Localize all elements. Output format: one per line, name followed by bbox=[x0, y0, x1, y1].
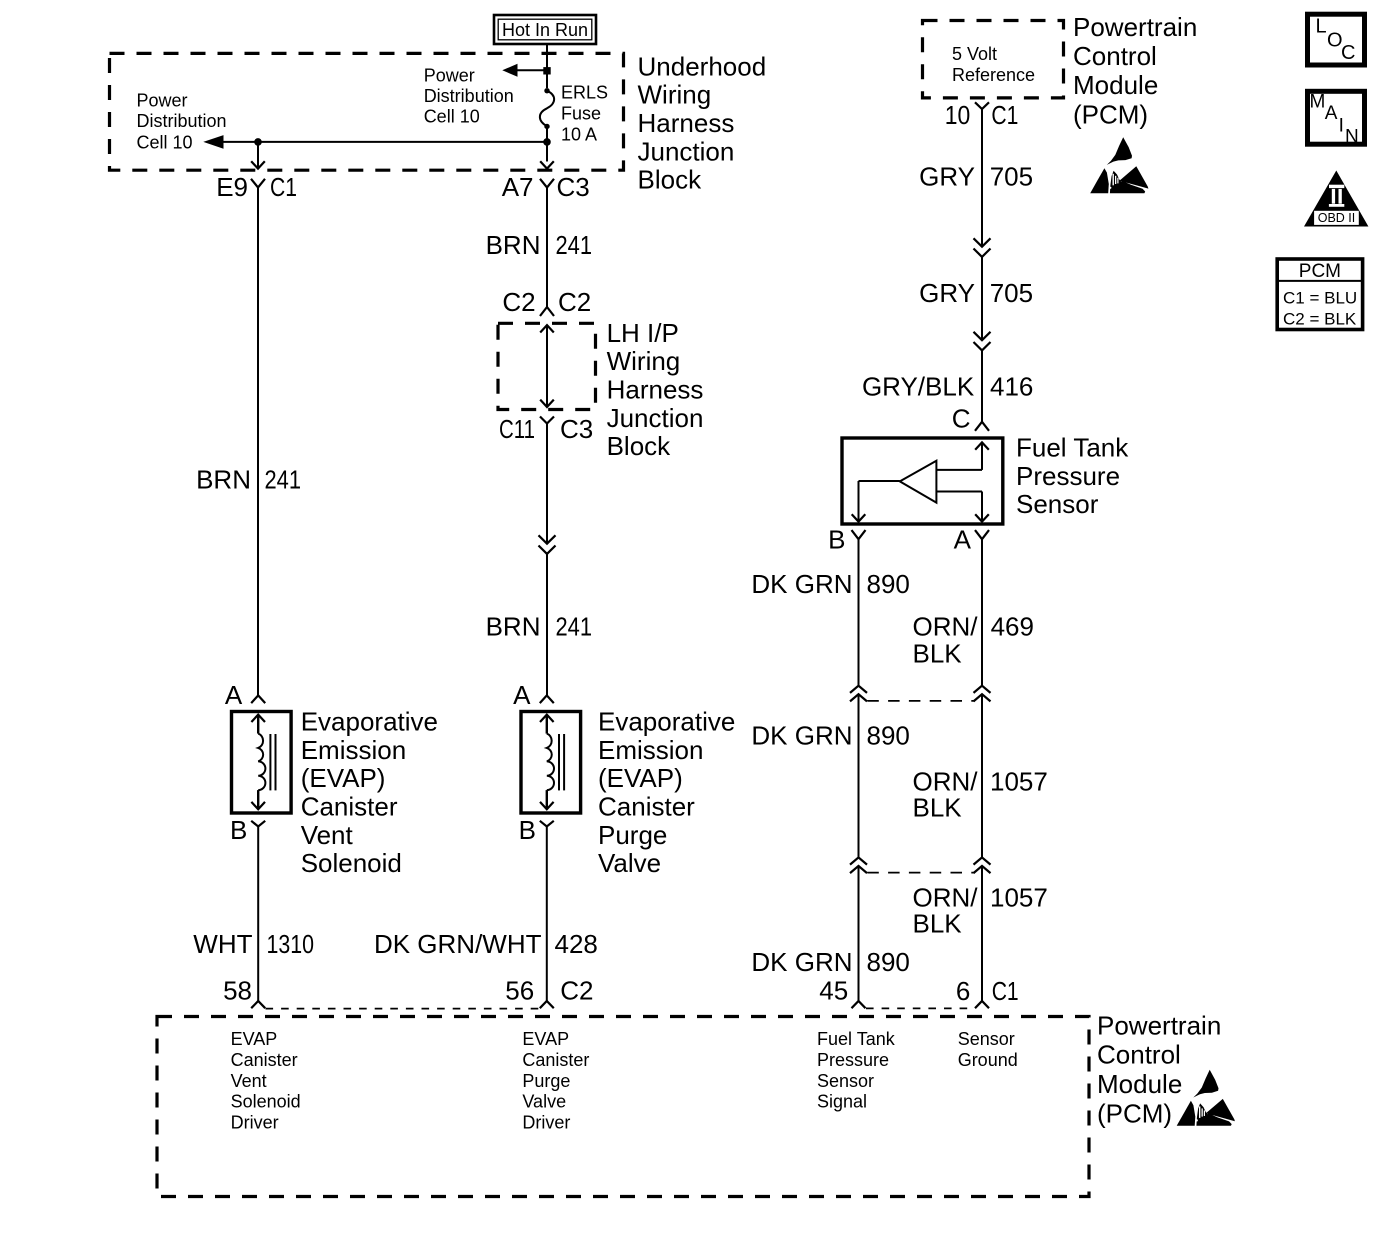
svg-text:Fuel Tank: Fuel Tank bbox=[1016, 433, 1129, 463]
svg-text:GRY: GRY bbox=[919, 162, 975, 192]
svg-text:Reference: Reference bbox=[952, 65, 1035, 85]
label: Power Distribution Cell 10 (upper) bbox=[424, 66, 514, 127]
label: Evaporative Emission (EVAP) Canister Vent Solenoid bbox=[301, 707, 438, 878]
svg-text:ORN/: ORN/ bbox=[913, 611, 979, 641]
label: LH I/P Wiring Harness Junction Block bbox=[607, 318, 704, 461]
svg-text:EVAP: EVAP bbox=[522, 1029, 569, 1049]
svg-text:C2: C2 bbox=[502, 287, 535, 317]
svg-text:5 Volt: 5 Volt bbox=[952, 44, 997, 64]
splice continuation chevrons (GRY 2) bbox=[974, 332, 991, 340]
label: Sensor Ground bbox=[958, 1029, 1018, 1070]
wire: WHT 1310 (vent solenoid B to PCM 58) bbox=[257, 827, 259, 1002]
svg-text:Vent: Vent bbox=[301, 820, 354, 850]
svg-text:Sensor: Sensor bbox=[1016, 489, 1099, 519]
svg-text:Hot In Run: Hot In Run bbox=[502, 20, 588, 40]
svg-text:(PCM): (PCM) bbox=[1097, 1098, 1172, 1128]
svg-text:B: B bbox=[519, 815, 536, 845]
connector C2 / C2 (chevron into LH I/P block) bbox=[540, 307, 554, 316]
label: Powertrain Control Module (PCM) top right bbox=[1073, 12, 1197, 129]
svg-text:Power: Power bbox=[137, 90, 188, 110]
svg-text:C3: C3 bbox=[560, 414, 593, 444]
wire: BRN 241 (C11/C3 down to EVAP purge valve) bbox=[546, 424, 548, 544]
svg-text:Powertrain: Powertrain bbox=[1097, 1010, 1221, 1040]
junction dot at fuse output / horizontal bus bbox=[543, 138, 551, 146]
svg-text:469: 469 bbox=[991, 611, 1034, 641]
junction dot E9 branch bbox=[254, 138, 262, 146]
wire: E9 branch down to block edge, exit arrow bbox=[257, 142, 259, 167]
svg-text:241: 241 bbox=[556, 230, 593, 260]
PCM connector color legend box bbox=[1277, 259, 1362, 330]
svg-text:Block: Block bbox=[607, 431, 672, 461]
svg-text:Canister: Canister bbox=[301, 792, 398, 822]
svg-text:A: A bbox=[225, 680, 243, 710]
svg-text:1310: 1310 bbox=[267, 929, 315, 959]
svg-text:B: B bbox=[828, 524, 845, 554]
label: GRY 705 (lower) bbox=[919, 278, 1033, 308]
svg-text:C2 = BLK: C2 = BLK bbox=[1283, 310, 1357, 329]
svg-text:Fuel Tank: Fuel Tank bbox=[817, 1029, 896, 1049]
svg-text:C: C bbox=[1341, 42, 1355, 64]
svg-text:Harness: Harness bbox=[638, 108, 735, 138]
svg-text:890: 890 bbox=[867, 947, 910, 977]
label: Evaporative Emission (EVAP) Canister Purge Valve bbox=[598, 707, 735, 878]
svg-text:Solenoid: Solenoid bbox=[301, 848, 402, 878]
svg-text:(EVAP): (EVAP) bbox=[598, 763, 683, 793]
svg-text:A: A bbox=[513, 680, 531, 710]
svg-text:Emission: Emission bbox=[301, 735, 406, 765]
svg-text:ERLS: ERLS bbox=[561, 83, 608, 103]
svg-text:C1: C1 bbox=[270, 172, 297, 202]
label: Fuel Tank Pressure Sensor Signal bbox=[817, 1029, 896, 1111]
svg-text:Pressure: Pressure bbox=[1016, 461, 1120, 491]
svg-text:Purge: Purge bbox=[522, 1071, 570, 1091]
junction (square) at power feed bbox=[543, 67, 550, 74]
svg-text:BLK: BLK bbox=[913, 792, 963, 822]
solenoid EVAP purge valve box bbox=[521, 712, 581, 814]
label: EVAP Canister Vent Solenoid Driver bbox=[231, 1029, 301, 1132]
label: EVAP Canister Purge Valve Driver bbox=[522, 1029, 589, 1132]
svg-text:Vent: Vent bbox=[231, 1071, 267, 1091]
solenoid coil symbol bbox=[540, 715, 554, 722]
svg-text:E9: E9 bbox=[216, 172, 248, 202]
svg-text:C1 = BLU: C1 = BLU bbox=[1283, 289, 1357, 308]
wire through LH I/P block with entry/exit arrows bbox=[540, 325, 554, 332]
svg-text:C3: C3 bbox=[557, 172, 590, 202]
wire: fuse output down bbox=[546, 126, 548, 161]
svg-text:890: 890 bbox=[867, 569, 910, 599]
fuel tank pressure sensor box bbox=[842, 438, 1003, 524]
ESD sensitive symbol (top) bbox=[1090, 137, 1148, 193]
svg-text:GRY/BLK: GRY/BLK bbox=[862, 371, 975, 401]
svg-text:Cell 10: Cell 10 bbox=[424, 107, 480, 127]
Powertrain Control Module box (dashed) bbox=[157, 1017, 1089, 1197]
svg-text:Control: Control bbox=[1097, 1040, 1181, 1070]
label: Powertrain Control Module (PCM) bottom right bbox=[1097, 1010, 1221, 1128]
svg-text:Driver: Driver bbox=[231, 1113, 279, 1133]
svg-text:BLK: BLK bbox=[913, 639, 963, 669]
svg-text:Sensor: Sensor bbox=[817, 1071, 874, 1091]
svg-text:705: 705 bbox=[990, 162, 1033, 192]
svg-text:BRN: BRN bbox=[486, 612, 541, 642]
svg-text:DK GRN/WHT: DK GRN/WHT bbox=[374, 929, 542, 959]
svg-text:C1: C1 bbox=[992, 976, 1019, 1006]
svg-text:OBD II: OBD II bbox=[1318, 211, 1356, 225]
underhood wiring harness junction block (dashed box) bbox=[110, 53, 624, 170]
MAIN legend box bbox=[1308, 91, 1365, 147]
label: Power Distribution Cell 10 (left) bbox=[137, 90, 227, 152]
sensor internal symbol (amplifier triangle) bbox=[852, 442, 989, 521]
svg-text:428: 428 bbox=[555, 929, 598, 959]
wire: BRN 241 (E9/C1 to EVAP canister vent solenoid) bbox=[257, 188, 259, 696]
svg-text:Wiring: Wiring bbox=[607, 346, 681, 376]
label: ORN/ BLK 469 bbox=[913, 611, 1034, 668]
svg-text:56: 56 bbox=[505, 976, 534, 1006]
svg-text:A: A bbox=[954, 524, 972, 554]
label: ORN/ BLK 1057 (row 3) bbox=[913, 882, 1048, 938]
wire: Hot In Run feed down into junction block bbox=[546, 44, 548, 88]
svg-text:Module: Module bbox=[1073, 70, 1158, 100]
label: DK GRN 890 (row 2) bbox=[751, 720, 910, 750]
svg-text:L: L bbox=[1316, 16, 1327, 38]
label: DK GRN 890 (row 3) bbox=[751, 947, 910, 977]
svg-text:(EVAP): (EVAP) bbox=[301, 763, 386, 793]
svg-text:M: M bbox=[1310, 92, 1326, 113]
svg-text:WHT: WHT bbox=[193, 929, 252, 959]
label: Underhood Wiring Harness Junction Block bbox=[638, 51, 767, 194]
solenoid core bars bbox=[558, 734, 560, 790]
pin 58 chevron into PCM bbox=[251, 1001, 265, 1008]
splice continuation chevrons (middle wire) bbox=[539, 535, 556, 543]
pin A chevron into EVAP vent solenoid bbox=[251, 695, 265, 703]
svg-text:Canister: Canister bbox=[598, 792, 695, 822]
PCM connector C1 dashed link (pins 45-6) bbox=[866, 1007, 975, 1009]
label: BRN 241 (middle lower) bbox=[486, 612, 592, 642]
label: 5 Volt Reference bbox=[952, 44, 1035, 85]
svg-text:Valve: Valve bbox=[598, 848, 661, 878]
svg-text:BRN: BRN bbox=[196, 465, 251, 495]
svg-text:705: 705 bbox=[990, 278, 1033, 308]
svg-text:Ground: Ground bbox=[958, 1050, 1018, 1070]
svg-text:PCM: PCM bbox=[1299, 261, 1341, 282]
solenoid EVAP vent solenoid box bbox=[232, 712, 292, 814]
svg-text:LH I/P: LH I/P bbox=[607, 318, 679, 348]
label: ERLS Fuse 10 A bbox=[561, 83, 608, 145]
svg-text:C: C bbox=[952, 404, 971, 434]
svg-text:Underhood: Underhood bbox=[638, 51, 767, 81]
svg-text:Evaporative: Evaporative bbox=[598, 707, 735, 737]
svg-text:1057: 1057 bbox=[990, 767, 1048, 797]
svg-text:C11: C11 bbox=[499, 414, 535, 444]
label: DK GRN/WHT 428 bbox=[374, 929, 598, 959]
solenoid core bars bbox=[269, 734, 271, 790]
connector A7 / C3 (fork) bbox=[540, 179, 554, 188]
pin A fork (sensor) bbox=[975, 530, 989, 539]
svg-text:Module: Module bbox=[1097, 1069, 1182, 1099]
label: ORN/ BLK 1057 (row 2) bbox=[913, 767, 1048, 823]
5 Volt Reference box (PCM, dashed) bbox=[923, 21, 1064, 98]
svg-text:58: 58 bbox=[223, 976, 252, 1006]
wire: branch to Power Distribution Cell 10 (upper left arrow) bbox=[516, 69, 547, 71]
label: WHT 1310 bbox=[193, 929, 314, 959]
wire: DK GRN 890 (sensor B to PCM 45) bbox=[858, 539, 860, 686]
svg-text:DK GRN: DK GRN bbox=[751, 569, 852, 599]
pin B fork (sensor) bbox=[852, 530, 866, 539]
wire: DK GRN/WHT 428 (purge valve B to PCM 56) bbox=[546, 827, 548, 1002]
svg-text:45: 45 bbox=[819, 976, 848, 1006]
svg-text:C1: C1 bbox=[991, 100, 1018, 130]
pin 6 / C1 chevron into PCM bbox=[975, 1001, 989, 1008]
wire: ORN/BLK (sensor A to PCM 6) bbox=[981, 539, 983, 686]
svg-text:DK GRN: DK GRN bbox=[751, 947, 852, 977]
svg-text:DK GRN: DK GRN bbox=[751, 720, 852, 750]
pin B fork (purge) bbox=[540, 821, 554, 827]
svg-text:10: 10 bbox=[945, 100, 971, 130]
svg-text:Block: Block bbox=[638, 165, 703, 195]
svg-text:C2: C2 bbox=[558, 287, 591, 317]
svg-text:Sensor: Sensor bbox=[958, 1029, 1015, 1049]
svg-text:Cell 10: Cell 10 bbox=[137, 133, 193, 153]
OBD II symbol (triangle) bbox=[1304, 171, 1368, 227]
svg-text:I: I bbox=[1339, 116, 1344, 137]
svg-text:Purge: Purge bbox=[598, 820, 667, 850]
svg-text:(PCM): (PCM) bbox=[1073, 99, 1148, 129]
label: BRN 241 (middle upper) bbox=[486, 230, 592, 260]
svg-text:EVAP: EVAP bbox=[231, 1029, 278, 1049]
svg-text:Junction: Junction bbox=[638, 136, 735, 166]
svg-text:BLK: BLK bbox=[913, 908, 963, 938]
LOC legend box bbox=[1308, 14, 1365, 65]
in-line connector 1 (chevrons + dashed link) bbox=[850, 686, 867, 693]
wire: fused feed exit arrow A7 bbox=[540, 161, 554, 168]
svg-text:Wiring: Wiring bbox=[638, 80, 712, 110]
svg-text:1057: 1057 bbox=[990, 882, 1048, 912]
svg-text:Canister: Canister bbox=[231, 1050, 298, 1070]
svg-text:Canister: Canister bbox=[522, 1050, 589, 1070]
solenoid coil symbol bbox=[251, 715, 265, 722]
svg-text:416: 416 bbox=[990, 371, 1033, 401]
label: GRY 705 (upper) bbox=[919, 162, 1033, 192]
label: DK GRN 890 (row 1) bbox=[751, 569, 910, 599]
label: GRY/BLK 416 bbox=[862, 371, 1033, 401]
svg-text:Emission: Emission bbox=[598, 735, 703, 765]
wire: horizontal bus to Power Distribution Cell 10 (left arrow) bbox=[222, 141, 547, 143]
svg-text:Valve: Valve bbox=[522, 1092, 566, 1112]
power source box "Hot In Run" bbox=[494, 15, 596, 44]
svg-text:890: 890 bbox=[867, 720, 910, 750]
pin 45 chevron into PCM bbox=[852, 1001, 866, 1008]
wire: GRY 705 (5V ref down) bbox=[981, 109, 983, 247]
svg-text:Harness: Harness bbox=[607, 375, 704, 405]
svg-text:C2: C2 bbox=[560, 976, 593, 1006]
splice continuation chevrons (GRY) bbox=[974, 238, 991, 246]
connector C11 / C3 (fork) bbox=[540, 417, 554, 424]
svg-text:Solenoid: Solenoid bbox=[231, 1092, 301, 1112]
svg-text:Junction: Junction bbox=[607, 403, 704, 433]
svg-text:241: 241 bbox=[265, 465, 302, 495]
label: BRN 241 (left) bbox=[196, 465, 301, 495]
svg-text:A: A bbox=[1325, 103, 1338, 124]
svg-text:Evaporative: Evaporative bbox=[301, 707, 438, 737]
LH I/P wiring harness junction block (dashed box) bbox=[498, 323, 596, 409]
svg-text:Driver: Driver bbox=[522, 1113, 570, 1133]
label: Fuel Tank Pressure Sensor bbox=[1016, 433, 1129, 520]
svg-text:Distribution: Distribution bbox=[137, 111, 227, 131]
connector 10 / C1 (fork) bbox=[975, 102, 989, 109]
connector E9 / C1 (fork) bbox=[251, 179, 265, 188]
svg-text:Control: Control bbox=[1073, 41, 1157, 71]
wire: BRN 241 (A7/C3 down to C2 connector) bbox=[546, 188, 548, 308]
svg-text:Power: Power bbox=[424, 66, 475, 86]
svg-text:6: 6 bbox=[956, 976, 970, 1006]
svg-text:10 A: 10 A bbox=[561, 125, 597, 145]
svg-text:GRY: GRY bbox=[919, 278, 975, 308]
fuse ERLS 10 A bbox=[540, 88, 554, 129]
pin C chevron into fuel tank pressure sensor bbox=[975, 422, 989, 431]
svg-text:Fuse: Fuse bbox=[561, 104, 601, 124]
svg-text:Distribution: Distribution bbox=[424, 86, 514, 106]
svg-text:Signal: Signal bbox=[817, 1092, 867, 1112]
svg-text:BRN: BRN bbox=[486, 230, 541, 260]
svg-text:B: B bbox=[230, 815, 247, 845]
PCM connector C2 dashed link (pins 58-56) bbox=[266, 1008, 540, 1010]
pin A chevron into EVAP purge valve bbox=[540, 695, 554, 703]
in-line connector 2 (chevrons + dashed link) bbox=[850, 857, 867, 864]
pin 56 / C2 chevron into PCM bbox=[540, 1001, 554, 1008]
pin B fork (vent) bbox=[251, 821, 265, 827]
svg-text:Pressure: Pressure bbox=[817, 1050, 889, 1070]
svg-text:Powertrain: Powertrain bbox=[1073, 12, 1197, 42]
svg-text:N: N bbox=[1345, 126, 1359, 147]
ESD sensitive symbol (bottom) bbox=[1177, 1070, 1235, 1126]
svg-text:241: 241 bbox=[556, 612, 593, 642]
svg-text:A7: A7 bbox=[502, 172, 534, 202]
